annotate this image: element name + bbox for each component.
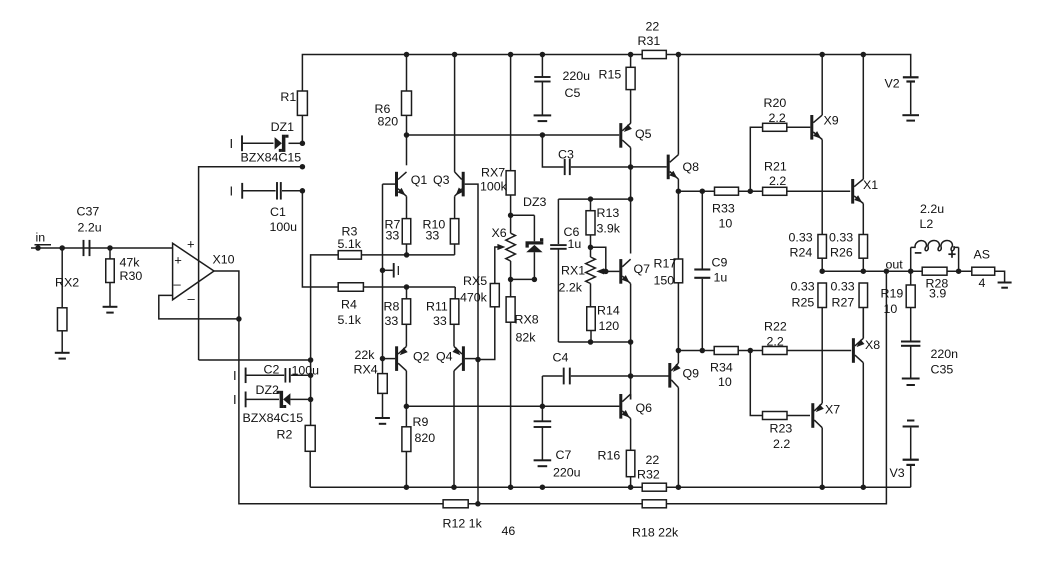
wire R12/R18 feedback row bbox=[468, 503, 642, 505]
svg-text:RX8: RX8 bbox=[515, 313, 539, 327]
svg-text:22: 22 bbox=[646, 453, 660, 467]
resistor R7 33 bbox=[402, 219, 411, 244]
wire R25 to X7 bbox=[821, 308, 823, 404]
svg-text:C9: C9 bbox=[712, 256, 728, 270]
resistor R32 22 in rail bbox=[642, 483, 666, 491]
svg-text:R23: R23 bbox=[770, 422, 793, 436]
junction R30 bbox=[107, 245, 113, 251]
svg-text:R25: R25 bbox=[792, 296, 815, 310]
svg-text:R21: R21 bbox=[764, 160, 787, 174]
wire Q5 collector down bbox=[630, 148, 632, 167]
svg-text:0.33: 0.33 bbox=[829, 231, 853, 245]
wire Q2 emitter to R8 bbox=[405, 324, 407, 346]
svg-text:2.2: 2.2 bbox=[769, 111, 786, 125]
wire R3 to R7/R10 tail bbox=[361, 254, 454, 256]
svg-text:–: – bbox=[188, 291, 196, 306]
wire R13 to RX1 bbox=[590, 235, 592, 257]
svg-text:AS: AS bbox=[974, 248, 991, 262]
svg-text:0.33: 0.33 bbox=[831, 280, 855, 294]
wire R20 link bbox=[750, 127, 762, 191]
transistor X1 bbox=[851, 179, 854, 204]
svg-text:R11: R11 bbox=[426, 300, 448, 314]
resistor R28 3.9 bbox=[922, 267, 947, 275]
wire Q9 collector to bottom rail bbox=[677, 388, 679, 488]
svg-text:R8: R8 bbox=[384, 300, 400, 314]
capacitor C9 1u bbox=[701, 191, 703, 268]
wire R2 to bottom rail bbox=[309, 451, 311, 487]
svg-text:Q4: Q4 bbox=[436, 350, 453, 364]
svg-text:33: 33 bbox=[426, 229, 440, 243]
wire op-amp output bbox=[214, 271, 239, 319]
wire RX7 to X6 bbox=[510, 195, 512, 233]
svg-text:L2: L2 bbox=[920, 217, 934, 231]
ground under C5 bbox=[534, 114, 552, 116]
X6 wiper arrow bbox=[497, 244, 505, 250]
svg-text:Q5: Q5 bbox=[635, 127, 652, 141]
wire AS to ground bbox=[995, 271, 1005, 281]
wire R20 to X9 base bbox=[787, 126, 811, 128]
wire Q4 collector to bottom rail bbox=[453, 371, 455, 487]
svg-text:V2: V2 bbox=[885, 77, 900, 91]
resistor R3 5.1k bbox=[338, 251, 361, 260]
wire mid rail to Q5 base bbox=[407, 134, 620, 136]
speaker load AS 4 bbox=[972, 267, 995, 275]
bottom rail junction dots bbox=[404, 484, 410, 490]
resistor RX7 100k bbox=[510, 55, 512, 171]
wire R23 link bbox=[750, 351, 762, 416]
ground under C7 bbox=[534, 459, 552, 461]
ground under RX2 bbox=[55, 352, 70, 354]
wire op-amp inverting feedback loop bbox=[159, 295, 239, 319]
wire R6 to Q1 collector bbox=[406, 115, 408, 165]
wire R22 to X8 base bbox=[787, 350, 851, 352]
svg-text:82k: 82k bbox=[516, 331, 537, 345]
transistor Q7 bbox=[619, 259, 622, 284]
svg-text:X6: X6 bbox=[492, 226, 507, 240]
resistor R33 10 bbox=[678, 190, 714, 192]
wire C2/DZ2 chain down to R2 bbox=[310, 360, 312, 425]
svg-text:Q9: Q9 bbox=[683, 367, 700, 381]
svg-text:DZ2: DZ2 bbox=[256, 383, 280, 397]
resistor R27 0.33 bbox=[859, 283, 868, 308]
svg-text:I: I bbox=[233, 392, 237, 407]
resistor R25 0.33 bbox=[818, 283, 827, 308]
resistor R19 10 bbox=[910, 271, 912, 285]
svg-text:+: + bbox=[187, 237, 195, 252]
svg-text:DZ1: DZ1 bbox=[271, 120, 295, 134]
svg-text:R2: R2 bbox=[277, 428, 293, 442]
wire VAS row to Q6 base bbox=[406, 405, 619, 407]
svg-text:RX2: RX2 bbox=[55, 276, 79, 290]
svg-text:820: 820 bbox=[378, 115, 399, 129]
wire Q9 emitter row bbox=[678, 350, 714, 352]
wire Q9 emitter up bbox=[677, 351, 679, 364]
svg-text:470k: 470k bbox=[460, 291, 488, 305]
svg-text:220n: 220n bbox=[931, 347, 959, 361]
wire op-amp output down to R12 row bbox=[239, 319, 443, 504]
svg-text:C5: C5 bbox=[565, 86, 581, 100]
transistor X9 bbox=[810, 115, 813, 140]
svg-text:820: 820 bbox=[415, 431, 436, 445]
svg-text:3.9k: 3.9k bbox=[597, 222, 621, 236]
svg-text:I: I bbox=[233, 368, 237, 383]
ground under V2 bbox=[902, 114, 919, 116]
svg-text:RX5: RX5 bbox=[463, 274, 487, 288]
svg-text:C35: C35 bbox=[931, 363, 954, 377]
resistor R30 47k bbox=[109, 248, 111, 259]
wire X8 collector to bottom rail bbox=[862, 363, 864, 488]
resistor R24 0.33 bbox=[818, 235, 827, 259]
wire Q7 chain to Q6 bbox=[630, 342, 632, 400]
svg-text:R14: R14 bbox=[597, 304, 620, 318]
wire Q7 emitter down bbox=[630, 284, 632, 342]
wire Q1 base link bbox=[383, 183, 396, 185]
svg-text:I: I bbox=[230, 184, 234, 199]
wire R10 to tail bbox=[454, 244, 456, 255]
wire Q3 emitter to R10 bbox=[454, 196, 456, 218]
capacitor C1 100u bbox=[243, 190, 276, 192]
resistor R6 820 bbox=[406, 55, 408, 92]
resistor R31 22 in top rail bbox=[642, 50, 666, 58]
svg-text:C2: C2 bbox=[264, 363, 280, 377]
svg-text:22k: 22k bbox=[355, 348, 376, 362]
svg-text:1u: 1u bbox=[714, 271, 728, 285]
resistor R22 2.2 bbox=[763, 347, 788, 355]
svg-text:10: 10 bbox=[718, 375, 732, 389]
transistor X8 bbox=[852, 338, 855, 363]
svg-text:2.2u: 2.2u bbox=[920, 202, 944, 216]
wire R18 to output node bbox=[666, 271, 886, 504]
transistor Q6 bbox=[619, 394, 622, 419]
wire R21 to X1 base bbox=[787, 190, 850, 192]
resistor R26 0.33 bbox=[859, 235, 868, 259]
wire X8 emitter to R27 bbox=[862, 308, 864, 339]
ground under RX4 bbox=[375, 417, 390, 419]
transistor Q3 bbox=[462, 172, 465, 197]
resistor R16 bbox=[626, 450, 635, 476]
wire RX1 to R14 bbox=[590, 284, 592, 307]
wire Q6 emitter to R16 bbox=[630, 419, 632, 451]
ground at AS bbox=[998, 282, 1012, 284]
svg-text:R27: R27 bbox=[832, 296, 855, 310]
wire feedback row to R3 node bbox=[199, 359, 311, 361]
svg-text:BZX84C15: BZX84C15 bbox=[243, 411, 304, 425]
svg-text:R20: R20 bbox=[764, 96, 787, 110]
svg-text:C1: C1 bbox=[270, 205, 286, 219]
svg-text:R30: R30 bbox=[120, 269, 143, 283]
wire Q1-Q2 base link bbox=[382, 184, 384, 359]
svg-text:0.33: 0.33 bbox=[789, 231, 813, 245]
ground above V3 bbox=[907, 420, 914, 422]
capacitor C5 220u bbox=[541, 55, 543, 77]
wire Q3-Q4 base link bbox=[465, 184, 478, 359]
ground under C35 bbox=[902, 378, 920, 380]
wire R23 to X7 base bbox=[787, 415, 810, 417]
svg-text:R31: R31 bbox=[638, 34, 661, 48]
svg-text:R12 1k: R12 1k bbox=[443, 517, 483, 531]
svg-text:in: in bbox=[36, 231, 46, 245]
wire R28 to AS bbox=[947, 270, 972, 272]
current source block top wire bbox=[558, 198, 630, 200]
svg-text:33: 33 bbox=[386, 229, 400, 243]
wire RX5 to Q4 base node bbox=[478, 307, 495, 360]
capacitor C35 220n bbox=[901, 341, 920, 343]
resistor R12 1k bbox=[443, 500, 468, 508]
svg-text:out: out bbox=[886, 257, 904, 271]
wire RX8 to bottom rail bbox=[510, 322, 512, 487]
resistor R21 2.2 bbox=[763, 187, 787, 195]
svg-text:X9: X9 bbox=[824, 114, 839, 128]
svg-text:X10: X10 bbox=[213, 253, 235, 267]
wire node up to R3 bbox=[311, 255, 339, 360]
svg-text:C3: C3 bbox=[558, 148, 574, 162]
svg-text:220u: 220u bbox=[563, 69, 591, 83]
resistor R20 2.2 bbox=[763, 123, 787, 131]
svg-text:2.2u: 2.2u bbox=[78, 221, 102, 235]
transistor Q1 bbox=[395, 172, 398, 197]
svg-text:Q3: Q3 bbox=[433, 173, 450, 187]
svg-text:I: I bbox=[230, 136, 234, 151]
wire X7 collector to bottom rail bbox=[821, 428, 823, 488]
svg-text:R33: R33 bbox=[712, 202, 735, 216]
capacitor C7 220u bbox=[541, 406, 543, 421]
svg-text:R32: R32 bbox=[637, 468, 660, 482]
wire C3 tap bbox=[542, 135, 563, 167]
resistor R14 120 bbox=[587, 307, 596, 331]
wire top +V rail bbox=[302, 55, 910, 144]
wire Q5-Q7 chain bbox=[630, 167, 632, 254]
wire X1 emitter to R26 bbox=[862, 204, 864, 235]
svg-text:R26: R26 bbox=[830, 246, 853, 260]
resistor R15 bbox=[630, 55, 632, 68]
svg-text:+: + bbox=[174, 253, 182, 268]
wire Q8 base from Q5 chain bbox=[631, 166, 667, 168]
capacitor C2 100u bbox=[246, 374, 284, 376]
svg-text:R18 22k: R18 22k bbox=[632, 526, 679, 540]
wire Q2 base bbox=[383, 358, 396, 360]
svg-text:100u: 100u bbox=[292, 364, 320, 378]
svg-text:2.2k: 2.2k bbox=[559, 281, 583, 295]
svg-text:Q1: Q1 bbox=[411, 173, 428, 187]
wire C4 left leg bbox=[541, 376, 543, 406]
capacitor C37 2.2u bbox=[83, 240, 85, 256]
svg-text:C37: C37 bbox=[77, 205, 100, 219]
svg-text:46: 46 bbox=[502, 524, 516, 538]
resistor R13 3.9k bbox=[590, 199, 592, 211]
svg-text:RX1: RX1 bbox=[561, 264, 585, 278]
svg-text:2.2: 2.2 bbox=[769, 174, 786, 188]
svg-text:150: 150 bbox=[654, 274, 675, 288]
wire Q3/Q4 base link down to R12 row bbox=[477, 360, 479, 504]
resistor RX8 82k bbox=[510, 279, 512, 296]
resistor R1 bbox=[297, 91, 307, 115]
transistor Q5 bbox=[619, 123, 622, 148]
svg-text:R19: R19 bbox=[881, 287, 904, 301]
wire Q4 base bbox=[465, 358, 478, 360]
svg-text:DZ3: DZ3 bbox=[523, 195, 547, 209]
wire feedback tap to op-amp supply bbox=[199, 167, 303, 360]
svg-text:33: 33 bbox=[433, 314, 447, 328]
svg-text:R24: R24 bbox=[790, 246, 813, 260]
resistor R11 33 bbox=[450, 299, 459, 325]
wire RX1 top tap to Q7 base bbox=[591, 247, 606, 271]
svg-text:BZX84C15: BZX84C15 bbox=[241, 151, 302, 165]
node input row wire bbox=[31, 247, 173, 249]
svg-text:X7: X7 bbox=[825, 403, 840, 417]
transistor Q4 bbox=[462, 346, 465, 371]
RX1 wiper arrow bbox=[596, 268, 604, 274]
svg-text:X1: X1 bbox=[863, 178, 878, 192]
svg-text:10: 10 bbox=[719, 217, 733, 231]
svg-text:10: 10 bbox=[884, 302, 898, 316]
svg-text:1u: 1u bbox=[568, 237, 582, 251]
svg-text:22: 22 bbox=[646, 20, 660, 34]
resistor RX2 bbox=[61, 248, 63, 308]
ground under R30 bbox=[103, 306, 118, 308]
svg-text:–: – bbox=[174, 277, 182, 292]
junction RX2 bbox=[59, 245, 64, 251]
wire X9 collector to rail bbox=[821, 55, 823, 116]
wire Q8 collector to rail bbox=[677, 55, 679, 155]
svg-text:220u: 220u bbox=[553, 466, 581, 480]
svg-text:Q6: Q6 bbox=[636, 401, 653, 415]
resistor R17 150 bbox=[677, 191, 679, 259]
battery V3 bbox=[910, 428, 912, 459]
svg-text:R1: R1 bbox=[280, 90, 296, 104]
wire Q7 base bbox=[606, 270, 620, 272]
wire Q3 collector to top rail bbox=[454, 55, 456, 172]
wire Q2 collector down bbox=[405, 371, 407, 407]
wire X9 emitter to R24 bbox=[821, 140, 823, 235]
op-amp X10 bbox=[173, 243, 214, 299]
transistor X7 bbox=[811, 403, 814, 428]
wire R27 to X8 bbox=[862, 308, 864, 339]
wire Q8 emitter node bbox=[677, 179, 679, 191]
svg-text:RX4: RX4 bbox=[354, 363, 378, 377]
svg-text:33: 33 bbox=[385, 314, 399, 328]
resistor R34 10 bbox=[714, 347, 738, 355]
resistor R2 bbox=[305, 425, 315, 451]
svg-text:120: 120 bbox=[599, 319, 620, 333]
svg-text:5.1k: 5.1k bbox=[338, 237, 362, 251]
svg-text:C7: C7 bbox=[556, 448, 572, 462]
svg-text:R15: R15 bbox=[599, 68, 622, 82]
svg-text:C4: C4 bbox=[553, 351, 569, 365]
transistor Q2 bbox=[395, 346, 398, 371]
wire Q9 base row bbox=[631, 375, 669, 377]
capacitor C4 bbox=[542, 375, 562, 377]
svg-text:R13: R13 bbox=[597, 206, 620, 220]
pin marker compensation tap bbox=[383, 269, 393, 271]
wire output rail bbox=[822, 270, 922, 272]
transistor Q9 bbox=[668, 363, 671, 388]
wire Q1 emitter to R7 bbox=[406, 196, 408, 218]
wire R4 to R8/R11 row bbox=[363, 286, 455, 288]
wire R19 to C35 bbox=[910, 308, 912, 341]
svg-text:I: I bbox=[397, 263, 401, 278]
svg-text:0.33: 0.33 bbox=[791, 280, 815, 294]
svg-text:100u: 100u bbox=[270, 220, 298, 234]
transistor Q8 bbox=[667, 155, 670, 180]
svg-text:R34: R34 bbox=[710, 361, 733, 375]
svg-text:47k: 47k bbox=[120, 256, 141, 270]
resistor R10 33 bbox=[450, 219, 459, 244]
resistor R8 33 bbox=[402, 299, 411, 325]
battery V2 bbox=[903, 76, 919, 78]
resistor R9 820 bbox=[405, 406, 407, 427]
svg-text:5.1k: 5.1k bbox=[338, 313, 362, 327]
block bottom wire bbox=[558, 341, 630, 343]
svg-text:Q7: Q7 bbox=[634, 262, 651, 276]
svg-text:V3: V3 bbox=[890, 466, 905, 480]
wire Q4 emitter to R11 bbox=[453, 324, 455, 346]
wire bottom 0V rail bbox=[310, 486, 642, 488]
svg-text:Q8: Q8 bbox=[683, 160, 700, 174]
svg-text:X8: X8 bbox=[865, 338, 880, 352]
svg-text:RX7: RX7 bbox=[481, 166, 505, 180]
block left wire with C6 bbox=[557, 199, 559, 244]
resistor R4 5.1k bbox=[338, 283, 363, 292]
svg-text:4: 4 bbox=[979, 276, 986, 290]
resistor R18 22k bbox=[642, 500, 666, 508]
svg-text:2.2: 2.2 bbox=[773, 437, 790, 451]
node in terminal bbox=[35, 245, 41, 251]
svg-text:3.9: 3.9 bbox=[929, 287, 946, 301]
wire bottom rail right part bbox=[666, 486, 910, 488]
svg-text:R4: R4 bbox=[341, 298, 357, 312]
svg-text:R17: R17 bbox=[654, 257, 677, 271]
wire R1 chain down to R4 feed bbox=[302, 191, 338, 287]
wire X1 collector to rail bbox=[862, 55, 864, 180]
svg-text:Q2: Q2 bbox=[413, 350, 430, 364]
capacitor C6 1u bbox=[550, 244, 567, 246]
svg-text:R16: R16 bbox=[598, 449, 621, 463]
svg-text:R9: R9 bbox=[413, 415, 429, 429]
resistor R23 2.2 bbox=[763, 412, 788, 420]
svg-text:2.2: 2.2 bbox=[767, 335, 784, 349]
wire Q6 collector up bbox=[630, 394, 632, 399]
wire R11 top to R4 row bbox=[454, 287, 456, 299]
svg-text:R22: R22 bbox=[764, 320, 787, 334]
resistor RX4 22k bbox=[382, 359, 384, 374]
svg-text:100k: 100k bbox=[480, 180, 508, 194]
